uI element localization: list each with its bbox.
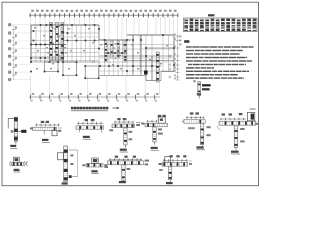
elevator core text noise (115, 43, 117, 44)
figure4 label (120, 149, 127, 151)
detail GZ (figure 2) (41, 121, 44, 123)
small circles right of wing (169, 55, 171, 57)
left inner dimension line (13, 25, 15, 80)
large dark blob right wing (144, 71, 148, 75)
AZ label (14, 169, 20, 171)
left wing lower edge (31, 61, 99, 63)
detail tall wall (figure 9) (64, 146, 68, 182)
plan columns (black squares) (33, 30, 35, 32)
stair core ladder walls (50, 23, 53, 61)
top dimension ticks and digits (29, 13, 31, 17)
detail big T bottom (figure 12) (115, 156, 118, 158)
small wall detail under notes (198, 82, 201, 96)
YZ1 right arrow mark (21, 130, 26, 133)
right dim text top (179, 36, 181, 38)
left axis bubbles (8, 23, 11, 26)
title arrow (113, 107, 120, 109)
figure5 label (151, 147, 158, 149)
column schedule table (184, 18, 258, 32)
figure10 label (91, 170, 97, 172)
building outline mid wing (99, 39, 131, 41)
extension lines (29, 17, 31, 25)
figure7 label (231, 151, 239, 153)
protruding room A (45, 62, 59, 72)
bottom dimension line (29, 96, 160, 98)
detail with top square (figure 5) (158, 115, 161, 117)
stair core interior text noise (54, 28, 56, 29)
detail AZ (figure 8, bottom row) (9, 161, 12, 166)
detail with top bump (figure 10) (92, 158, 98, 164)
top dimension line (29, 14, 178, 16)
right dimension line (177, 35, 179, 80)
GBZ label (83, 136, 90, 138)
detail T-shape (figure 4) (117, 118, 120, 120)
detail GBZ (figure 3) (85, 119, 88, 121)
strong interior walls (31, 44, 66, 46)
table row separators (184, 20, 258, 22)
figure12 label (119, 181, 126, 183)
detail big T right (figure 7) (222, 113, 225, 115)
figure6 label (196, 146, 203, 148)
plan light grid horizontals (31, 30, 50, 32)
building outline left wing (31, 24, 99, 26)
figure9 label (62, 182, 68, 184)
YZ1 bottom tick and label (15, 142, 17, 145)
plan light grid verticals (30, 25, 32, 62)
elevator core ladder walls (105, 41, 108, 62)
plan title text (71, 107, 74, 110)
faint mark bottom right (250, 108, 256, 110)
scattered plan annotations (46, 47, 48, 48)
table title (208, 14, 214, 16)
notes text lines (186, 46, 192, 47)
detail T with square (figure 13) (170, 155, 173, 157)
figure13 label (166, 182, 173, 184)
detail L-shape (figure 6) (190, 112, 194, 114)
detail YZ1 (figure 1) (8, 117, 16, 119)
protruding room B (63, 62, 77, 75)
right wing ladder wall (156, 52, 159, 82)
notes heading (184, 40, 189, 43)
protruding room C (85, 66, 99, 78)
extension lines up from bottom dim (30, 76, 32, 95)
GZ label (42, 139, 49, 141)
table cell text columns (184, 19, 188, 31)
sheet frame (2, 2, 259, 186)
